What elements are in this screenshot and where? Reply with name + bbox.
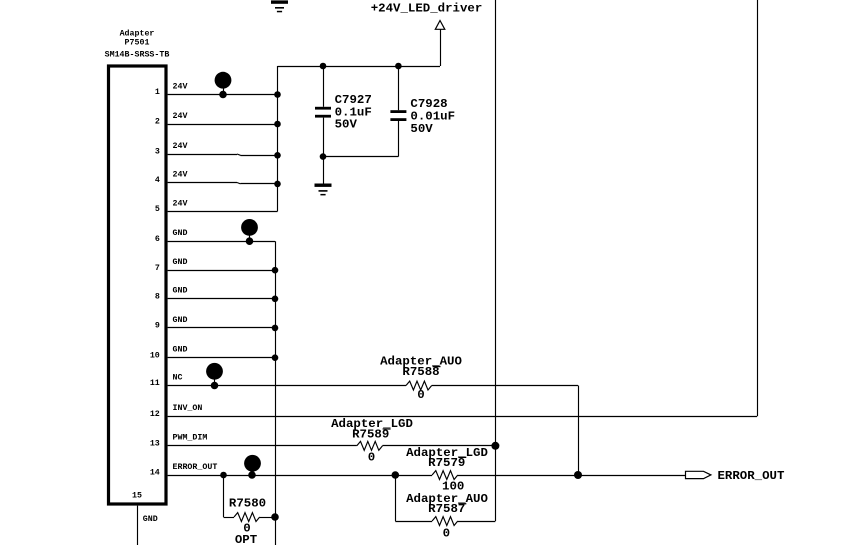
wire R7580 left branch	[224, 475, 235, 518]
value 100 R7579	[442, 479, 464, 493]
svg-text:PWM_DIM: PWM_DIM	[173, 434, 208, 443]
wire pin 15 GND	[137, 506, 139, 545]
svg-text:1: 1	[155, 88, 160, 97]
test point pin 6	[241, 219, 258, 245]
pin number 11	[150, 379, 160, 388]
junction pin14/R7587 branch	[392, 471, 400, 479]
pin number 2	[155, 118, 160, 127]
svg-text:5: 5	[155, 205, 160, 214]
wire vertical x495	[495, 0, 497, 521]
wire pin 1 24V	[168, 94, 278, 96]
svg-text:24V: 24V	[173, 142, 188, 151]
junction rail/C7928	[395, 63, 402, 70]
value 0 R7588	[417, 388, 424, 402]
label Adapter_AUO R7588	[380, 355, 462, 369]
svg-text:24V: 24V	[173, 112, 188, 121]
svg-text:R7580: R7580	[229, 497, 266, 511]
pin number 15	[132, 491, 142, 500]
pin label GND pin 7	[173, 258, 188, 267]
svg-text:SM14B-SRSS-TB: SM14B-SRSS-TB	[105, 51, 170, 60]
wire pin 10 GND	[168, 357, 275, 359]
pin number 8	[155, 293, 160, 302]
junction R7589/vertical x495	[491, 442, 499, 450]
capacitor C7927	[315, 66, 331, 157]
svg-text:4: 4	[155, 176, 160, 185]
ground symbol below capacitors	[315, 184, 332, 196]
value 0 R7587	[443, 527, 450, 541]
wire pin 3 24V with jog	[168, 154, 278, 156]
junction pin9/GND bus	[272, 325, 279, 332]
svg-text:11: 11	[150, 379, 160, 388]
wire pin 6 GND	[168, 241, 275, 243]
svg-text:9: 9	[155, 322, 160, 331]
wire R7580 right branch	[260, 517, 275, 519]
pin label ERROR_OUT pin 14	[173, 463, 218, 472]
svg-text:0: 0	[417, 388, 424, 402]
junction rail/C7927	[320, 63, 327, 70]
wire pin 2 24V	[168, 124, 278, 126]
pin number 9	[155, 322, 160, 331]
wire GND bus vertical	[275, 241, 277, 545]
svg-text:14: 14	[150, 469, 160, 478]
svg-text:24V: 24V	[173, 170, 188, 179]
junction pin4/24V bus	[274, 181, 281, 188]
wire 24V bus vertical	[277, 66, 279, 211]
wire capacitor bottom rail	[323, 156, 398, 158]
pin label 24V pin 1	[173, 82, 188, 91]
refdes R7588	[402, 365, 440, 379]
power symbol +24V_LED_driver arrow	[435, 21, 445, 30]
svg-text:ERROR_OUT: ERROR_OUT	[173, 463, 218, 472]
svg-text:0: 0	[368, 451, 375, 465]
wire R7587 right branch	[458, 521, 496, 523]
pin number 12	[150, 410, 160, 419]
pin label INV_ON pin 12	[173, 404, 203, 413]
svg-text:24V: 24V	[173, 199, 188, 208]
pin number 4	[155, 176, 160, 185]
junction pin1/24V bus	[274, 91, 281, 98]
pin label GND pin 10	[173, 346, 188, 355]
net label ERROR_OUT	[718, 469, 785, 483]
connector refdes P7501	[125, 39, 150, 48]
wire pin 14 ERROR_OUT left	[168, 475, 433, 477]
junction pin8/GND bus	[272, 296, 279, 303]
pin label 24V pin 3	[173, 142, 188, 151]
svg-text:+24V_LED_driver: +24V_LED_driver	[371, 2, 483, 16]
junction pin10/GND bus	[272, 354, 279, 361]
label Adapter_LGD R7589	[331, 417, 413, 431]
pin number 5	[155, 205, 160, 214]
output port ERROR_OUT	[686, 471, 711, 478]
resistor R7589	[357, 441, 383, 450]
svg-text:0: 0	[443, 527, 450, 541]
wire pin 13 PWM_DIM left	[168, 445, 357, 447]
connector title Adapter	[120, 28, 155, 38]
pin label PWM_DIM pin 13	[173, 434, 208, 443]
pin label 24V pin 2	[173, 112, 188, 121]
pin label NC pin 11	[173, 373, 183, 382]
svg-text:7: 7	[155, 264, 160, 273]
svg-text:ERROR_OUT: ERROR_OUT	[718, 469, 785, 483]
wire vertical x577	[578, 386, 580, 476]
svg-text:GND: GND	[143, 515, 158, 524]
net label +24V_LED_driver	[371, 2, 483, 16]
label Adapter_LGD R7579	[406, 446, 488, 460]
wire power arrow riser	[440, 29, 442, 66]
pin number 7	[155, 264, 160, 273]
pin number 10	[150, 351, 160, 360]
svg-text:3: 3	[155, 148, 160, 157]
test point pin 11	[206, 363, 223, 389]
value 0 R7580	[243, 522, 250, 536]
refdes R7587	[428, 502, 466, 516]
svg-text:GND: GND	[173, 316, 188, 325]
svg-text:2: 2	[155, 118, 160, 127]
pin number 3	[155, 148, 160, 157]
wire pin 5 24V	[168, 211, 278, 213]
wire pin 9 GND	[168, 327, 275, 329]
pin label GND pin 9	[173, 316, 188, 325]
svg-text:GND: GND	[173, 258, 188, 267]
pin number 6	[155, 235, 160, 244]
junction pin14/NC branch	[574, 471, 582, 479]
resistor R7587	[432, 517, 458, 526]
refdes R7589	[352, 427, 390, 441]
svg-text:10: 10	[150, 351, 160, 360]
connector part number SM14B-SRSS-TB	[105, 51, 170, 60]
ground symbol top edge	[271, 0, 288, 12]
svg-text:Adapter: Adapter	[120, 28, 155, 38]
pin label GND pin 8	[173, 287, 188, 296]
svg-text:GND: GND	[173, 346, 188, 355]
wire pin 12 INV_ON	[168, 416, 757, 418]
wire pin 11 NC left	[168, 385, 406, 387]
wire +24V rail horizontal	[278, 66, 441, 68]
value 0.1uF	[335, 105, 372, 119]
resistor R7588	[406, 381, 432, 390]
svg-text:NC: NC	[173, 373, 183, 382]
svg-text:12: 12	[150, 410, 160, 419]
label Adapter_AUO R7587	[406, 492, 488, 506]
svg-text:50V: 50V	[335, 118, 358, 132]
svg-text:6: 6	[155, 235, 160, 244]
wire R7579 to tag	[458, 475, 686, 477]
test point pin 14	[244, 455, 261, 479]
pin number 13	[150, 440, 160, 449]
refdes R7580	[229, 497, 266, 511]
voltage 50V C7927	[335, 118, 358, 132]
test point pin 1	[215, 72, 232, 99]
note OPT R7580	[235, 533, 258, 545]
wire R7587 left branch	[395, 475, 432, 522]
svg-text:OPT: OPT	[235, 533, 258, 545]
pin number 14	[150, 469, 160, 478]
pin number 1	[155, 88, 160, 97]
wire pin 7 GND	[168, 270, 275, 272]
svg-text:GND: GND	[173, 229, 188, 238]
pin 15 GND label	[143, 515, 158, 524]
wire R7588 to vertical	[432, 385, 578, 387]
svg-text:15: 15	[132, 491, 142, 500]
value 0.01uF	[410, 109, 455, 123]
wire ground stub	[323, 157, 325, 184]
label C7927	[335, 93, 372, 107]
junction cap bottom/ground	[320, 153, 327, 160]
refdes R7579	[428, 456, 466, 470]
junction R7580/GND bus	[271, 513, 279, 521]
pin label GND pin 6	[173, 229, 188, 238]
pin label 24V pin 4	[173, 170, 188, 179]
wire pin 4 24V with jog	[168, 183, 278, 184]
value 0 R7589	[368, 451, 375, 465]
junction pin2/24V bus	[274, 121, 281, 128]
svg-text:50V: 50V	[410, 122, 433, 136]
wire pin 8 GND	[168, 298, 275, 300]
junction pin3/24V bus	[274, 152, 281, 159]
junction pin7/GND bus	[272, 267, 279, 274]
junction pin14/R7580 branch	[220, 472, 227, 479]
svg-text:8: 8	[155, 293, 160, 302]
pin label 24V pin 5	[173, 199, 188, 208]
resistor R7580	[234, 513, 260, 522]
capacitor C7928	[390, 66, 406, 157]
voltage 50V C7928	[410, 122, 433, 136]
resistor R7579	[432, 471, 458, 480]
svg-text:13: 13	[150, 440, 160, 449]
svg-text:24V: 24V	[173, 82, 188, 91]
svg-text:GND: GND	[173, 287, 188, 296]
connector P7501 body	[109, 66, 167, 504]
label C7928	[410, 97, 447, 111]
wire vertical x757 to top	[757, 0, 759, 416]
svg-text:INV_ON: INV_ON	[173, 404, 203, 413]
svg-text:P7501: P7501	[125, 39, 150, 48]
wire R7589 to node	[383, 445, 496, 447]
